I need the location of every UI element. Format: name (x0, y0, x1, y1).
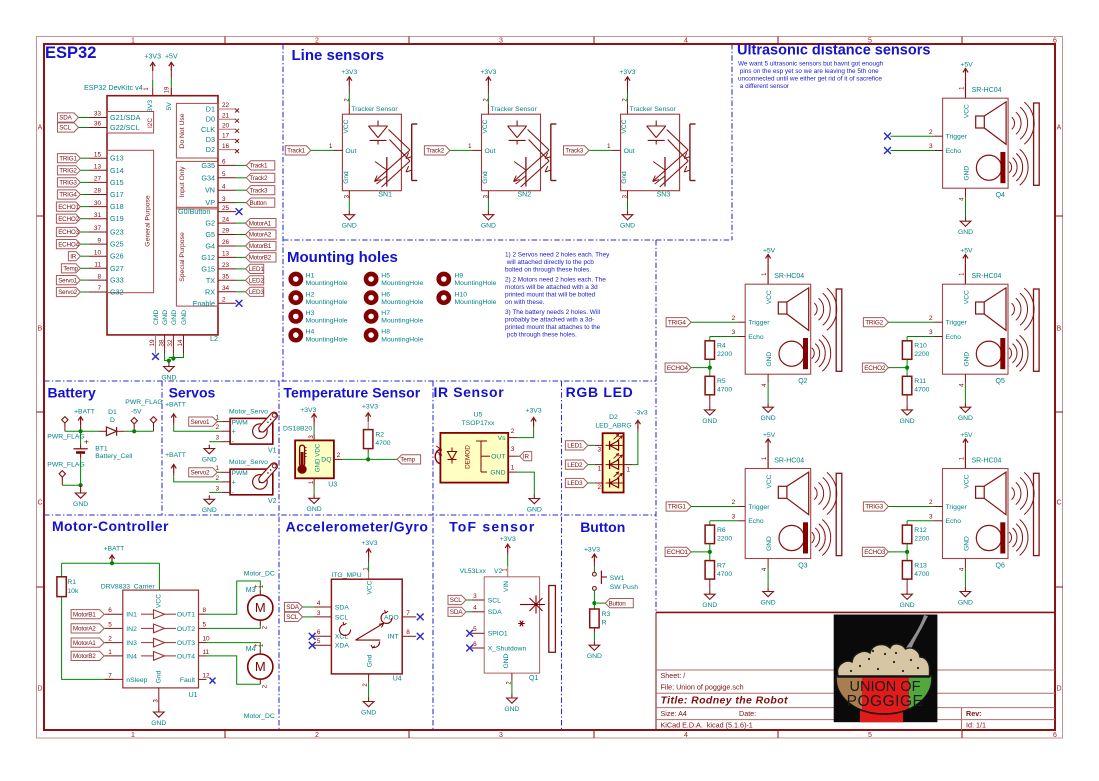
svg-text:GND: GND (963, 536, 970, 551)
svg-text:2: 2 (929, 499, 933, 506)
svg-text:G34: G34 (201, 173, 215, 182)
svg-text:4: 4 (317, 600, 321, 607)
svg-text:DS18B20: DS18B20 (283, 426, 312, 433)
svg-text:SCL: SCL (286, 614, 298, 621)
svg-text:13: 13 (94, 164, 102, 171)
svg-text:2: 2 (222, 297, 226, 304)
svg-text:GND: GND (587, 653, 602, 660)
svg-text:IN2: IN2 (126, 626, 137, 633)
svg-text:D1: D1 (206, 105, 215, 114)
svg-text:1: 1 (598, 466, 602, 473)
svg-text:Gnd: Gnd (482, 171, 489, 184)
svg-text:LED2: LED2 (249, 278, 265, 285)
svg-text:I2C: I2C (147, 118, 154, 128)
svg-text:G26: G26 (110, 252, 124, 261)
svg-text:11: 11 (203, 649, 210, 656)
svg-text:29: 29 (222, 228, 230, 235)
svg-text:B: B (38, 325, 43, 332)
svg-text:MountingHole: MountingHole (306, 299, 348, 306)
svg-text:+: + (232, 429, 236, 436)
svg-text:VCC: VCC (766, 290, 773, 304)
svg-text:7: 7 (97, 285, 101, 292)
svg-text:10: 10 (94, 249, 102, 256)
svg-text:D1: D1 (108, 409, 117, 416)
svg-text:H5: H5 (381, 273, 390, 280)
svg-text:TRIG1: TRIG1 (668, 504, 686, 511)
svg-text:5: 5 (203, 621, 207, 628)
svg-text:Trigger: Trigger (748, 320, 770, 327)
svg-text:ESP32 DevKitc v4: ESP32 DevKitc v4 (84, 83, 143, 92)
svg-text:Temp: Temp (63, 266, 78, 273)
svg-text:TRIG3: TRIG3 (59, 180, 77, 187)
svg-text:G22/SCL: G22/SCL (110, 123, 140, 132)
svg-text:Motor_Servo: Motor_Servo (229, 409, 268, 416)
svg-text:SCL: SCL (450, 597, 462, 604)
svg-text:1: 1 (468, 143, 472, 150)
svg-text:5V: 5V (166, 102, 173, 111)
svg-text:+3V3: +3V3 (584, 546, 600, 553)
svg-text:U4: U4 (393, 676, 402, 683)
svg-text:SN1: SN1 (378, 191, 392, 198)
svg-text:2200: 2200 (914, 536, 929, 543)
svg-text:TRIG4: TRIG4 (59, 192, 77, 199)
svg-text:ESP32: ESP32 (45, 44, 96, 62)
svg-text:3: 3 (222, 196, 226, 203)
svg-text:Track2: Track2 (250, 175, 269, 182)
svg-text:Echo: Echo (946, 518, 962, 525)
svg-text:3: 3 (216, 435, 220, 442)
svg-text:6: 6 (108, 607, 112, 614)
svg-text:2: 2 (216, 475, 220, 482)
svg-text:5: 5 (108, 621, 112, 628)
svg-text:21: 21 (222, 112, 230, 119)
svg-text:R10: R10 (914, 343, 927, 350)
svg-text:PWR_FLAG: PWR_FLAG (47, 433, 84, 440)
svg-text:6: 6 (1053, 732, 1057, 739)
svg-text:G5: G5 (205, 230, 215, 239)
svg-text:Button: Button (609, 600, 627, 607)
svg-text:D2: D2 (206, 145, 215, 154)
svg-text:1: 1 (131, 732, 135, 739)
svg-text:MountingHole: MountingHole (381, 318, 423, 325)
svg-text:+3V3: +3V3 (526, 407, 542, 414)
svg-text:Servo2: Servo2 (191, 470, 210, 477)
svg-text:BT1: BT1 (95, 446, 108, 453)
svg-text:V2: V2 (268, 498, 277, 505)
svg-text:31: 31 (94, 212, 102, 219)
svg-text:A: A (38, 124, 43, 131)
svg-text:3: 3 (473, 593, 477, 600)
svg-text:MountingHole: MountingHole (455, 280, 497, 287)
svg-text:Trigger: Trigger (946, 504, 968, 511)
svg-text:2: 2 (929, 129, 933, 136)
svg-text:Line sensors: Line sensors (292, 47, 385, 64)
svg-text:TRIG1: TRIG1 (59, 155, 77, 162)
svg-text:OUT3: OUT3 (177, 640, 195, 647)
svg-text:VIN: VIN (503, 581, 510, 592)
svg-text:U1: U1 (189, 692, 198, 699)
svg-text:MotorA2: MotorA2 (249, 232, 272, 239)
svg-text:VCC: VCC (963, 104, 970, 118)
svg-text:G0/Button: G0/Button (178, 207, 210, 216)
svg-text:2200: 2200 (717, 536, 732, 543)
svg-text:R5: R5 (717, 378, 726, 385)
svg-text:H8: H8 (381, 329, 390, 336)
svg-text:37: 37 (94, 225, 102, 232)
svg-text:8: 8 (406, 629, 410, 636)
svg-text:8: 8 (203, 607, 207, 614)
svg-text:G25: G25 (110, 240, 124, 249)
svg-text:Gnd: Gnd (343, 171, 350, 184)
svg-text:1: 1 (131, 38, 135, 45)
svg-text:Special Purpose: Special Purpose (179, 232, 186, 282)
svg-text:23: 23 (222, 262, 230, 269)
svg-text:D: D (110, 417, 115, 424)
svg-text:H9: H9 (455, 273, 464, 280)
svg-text:R2: R2 (375, 432, 384, 439)
svg-text:VCC: VCC (963, 290, 970, 304)
svg-text:MotorA2: MotorA2 (73, 626, 96, 633)
svg-text:28: 28 (94, 188, 102, 195)
svg-text:GND: GND (702, 602, 717, 609)
svg-text:1: 1 (108, 649, 112, 656)
svg-text:Title: Rodney the Robot: Title: Rodney the Robot (661, 695, 789, 707)
svg-text:2200: 2200 (717, 351, 732, 358)
svg-text:1: 1 (607, 143, 611, 150)
svg-text:Tracker Sensor: Tracker Sensor (351, 106, 398, 113)
svg-text:PWR_FLAG: PWR_FLAG (47, 461, 84, 468)
svg-text:Ultrasonic distance sensors: Ultrasonic distance sensors (737, 43, 930, 59)
svg-text:H6: H6 (381, 291, 390, 298)
svg-text:25: 25 (222, 205, 230, 212)
svg-text:Servos: Servos (169, 384, 216, 400)
svg-text:H7: H7 (381, 310, 390, 317)
svg-text:5: 5 (317, 638, 321, 645)
svg-text:Trigger: Trigger (748, 504, 770, 511)
svg-text:6: 6 (1053, 38, 1057, 45)
svg-text:2: 2 (108, 636, 112, 643)
svg-text:3V3: 3V3 (147, 100, 154, 112)
svg-text:3: 3 (511, 446, 515, 453)
svg-text:ECHO3: ECHO3 (58, 229, 79, 236)
svg-text:G35: G35 (201, 161, 215, 170)
svg-text:GND: GND (504, 706, 519, 713)
svg-text:Echo: Echo (748, 518, 764, 525)
svg-text:GND: GND (766, 536, 773, 551)
svg-text:C: C (37, 499, 42, 506)
svg-text:ECHO2: ECHO2 (864, 365, 886, 372)
svg-text:ECHO4: ECHO4 (58, 241, 79, 248)
svg-text:G2: G2 (205, 219, 215, 228)
svg-text:+3V3: +3V3 (619, 69, 635, 76)
svg-text:VP: VP (205, 198, 215, 207)
svg-text:U3: U3 (328, 481, 337, 488)
svg-text:SR-HC04: SR-HC04 (972, 273, 1002, 280)
svg-text:GND: GND (620, 223, 635, 230)
svg-text:IR: IR (523, 453, 530, 460)
svg-text:SR-HC04: SR-HC04 (972, 87, 1002, 94)
svg-text:R1: R1 (67, 579, 76, 586)
svg-text:nSleep: nSleep (126, 677, 147, 684)
svg-text:B: B (1057, 325, 1062, 332)
svg-text:2: 2 (315, 38, 319, 45)
svg-text:G27: G27 (110, 264, 124, 273)
svg-text:8: 8 (97, 273, 101, 280)
svg-text:GND: GND (342, 223, 357, 230)
svg-text:3: 3 (929, 329, 933, 336)
svg-text:+5V: +5V (960, 432, 973, 439)
svg-text:12: 12 (203, 672, 211, 679)
svg-text:Trigger: Trigger (946, 134, 968, 141)
svg-text:9: 9 (97, 237, 101, 244)
svg-text:D2: D2 (609, 414, 618, 421)
svg-text:4700: 4700 (914, 387, 929, 394)
svg-text:Vs: Vs (498, 435, 507, 442)
svg-text:H1: H1 (306, 273, 315, 280)
svg-text:A: A (1057, 124, 1062, 131)
svg-text:+BATT: +BATT (165, 401, 186, 408)
svg-text:SN3: SN3 (657, 191, 671, 198)
svg-text:H10: H10 (455, 291, 468, 298)
svg-text:5: 5 (222, 171, 226, 178)
svg-text:a different sensor: a different sensor (738, 83, 790, 90)
svg-text:SR-HC04: SR-HC04 (972, 457, 1002, 464)
svg-text:H2: H2 (306, 291, 315, 298)
svg-text:4: 4 (222, 183, 226, 190)
svg-text:LED1: LED1 (567, 443, 583, 450)
svg-text:3: 3 (317, 610, 321, 617)
svg-text:VCC: VCC (482, 119, 489, 133)
svg-text:DEMOD: DEMOD (465, 445, 472, 469)
svg-text:MotorA1: MotorA1 (249, 220, 272, 227)
svg-text:Track1: Track1 (287, 148, 306, 155)
svg-text:G18: G18 (110, 202, 124, 211)
svg-text:V2: V2 (494, 568, 503, 575)
svg-text:R6: R6 (717, 527, 726, 534)
svg-text:17: 17 (222, 133, 230, 140)
svg-text:D0: D0 (206, 115, 215, 124)
svg-text:33: 33 (94, 111, 102, 118)
svg-text:3: 3 (732, 329, 736, 336)
svg-text:OUT1: OUT1 (177, 612, 195, 619)
svg-text:V1: V1 (268, 448, 277, 455)
svg-text:+: + (232, 479, 236, 486)
svg-text:VCC: VCC (963, 474, 970, 488)
svg-text:5: 5 (868, 732, 872, 739)
svg-text:ToF sensor: ToF sensor (449, 518, 535, 534)
svg-text:CLK: CLK (201, 125, 215, 134)
svg-text:Fault: Fault (180, 677, 195, 684)
svg-text:GND: GND (702, 418, 717, 425)
svg-text:Servo1: Servo1 (58, 277, 77, 284)
svg-text:R4: R4 (717, 343, 726, 350)
svg-text:POGGIGE: POGGIGE (847, 693, 924, 710)
svg-text:Q4: Q4 (996, 192, 1005, 199)
svg-text:SPIO1: SPIO1 (488, 631, 508, 638)
svg-text:ITG_MPU: ITG_MPU (331, 572, 361, 579)
svg-text:Track1: Track1 (250, 163, 269, 170)
svg-text:probably be attached with a 3d: probably be attached with a 3d- (505, 317, 594, 324)
svg-text:Enable: Enable (193, 299, 215, 308)
svg-text:G12: G12 (201, 253, 215, 262)
svg-text:IR Sensor: IR Sensor (434, 384, 505, 400)
svg-text:GND: GND (307, 506, 322, 513)
svg-text:Track3: Track3 (565, 148, 584, 155)
svg-text:GND: GND (963, 352, 970, 367)
svg-text:IR: IR (70, 253, 77, 260)
svg-text:3: 3 (732, 514, 736, 521)
svg-text:4: 4 (684, 38, 688, 45)
svg-text:printed mount that attaches to: printed mount that attaches to the (505, 324, 601, 331)
svg-text:GND: GND (900, 418, 915, 425)
svg-text:unconnected until we either ge: unconnected until we either get rid of i… (738, 76, 882, 83)
svg-text:Echo: Echo (946, 148, 962, 155)
svg-text:PWM: PWM (232, 470, 248, 477)
svg-text:SR-HC04: SR-HC04 (774, 273, 804, 280)
svg-text:OUT4: OUT4 (177, 653, 195, 660)
svg-text:G4: G4 (205, 242, 215, 251)
svg-text:2) 2 Motors need 2 holes each.: 2) 2 Motors need 2 holes each. The (505, 277, 606, 284)
svg-text:SDA: SDA (59, 115, 72, 122)
svg-text:22: 22 (222, 102, 230, 109)
svg-text:13: 13 (222, 251, 230, 258)
svg-text:MountingHole: MountingHole (381, 299, 423, 306)
svg-text:2: 2 (732, 499, 736, 506)
svg-text:6: 6 (222, 159, 226, 166)
svg-text:LED2: LED2 (567, 462, 583, 469)
svg-text:6: 6 (317, 629, 321, 636)
svg-text:GND: GND (481, 223, 496, 230)
svg-text:VCC: VCC (766, 474, 773, 488)
svg-text:-3v3: -3v3 (634, 409, 647, 416)
svg-text:Motor-Controller: Motor-Controller (52, 518, 169, 534)
svg-text:1: 1 (329, 143, 333, 150)
svg-text:Accelerometer/Gyro: Accelerometer/Gyro (286, 518, 429, 534)
svg-text:3: 3 (598, 446, 602, 453)
svg-text:Date:: Date: (739, 709, 756, 718)
svg-text:IN4: IN4 (126, 653, 137, 660)
svg-text:4: 4 (473, 605, 477, 612)
svg-text:4: 4 (684, 732, 688, 739)
svg-text:Servo1: Servo1 (191, 419, 210, 426)
svg-text:G14: G14 (110, 166, 124, 175)
svg-text:GND: GND (202, 507, 217, 514)
svg-text:SCL: SCL (335, 614, 348, 621)
svg-text:Sheet: /: Sheet: / (661, 671, 686, 680)
svg-text:GND: GND (761, 599, 776, 606)
svg-text:+5V: +5V (165, 54, 178, 61)
svg-text:M: M (255, 600, 266, 615)
svg-text:H3: H3 (306, 310, 315, 317)
svg-text:+5V: +5V (960, 62, 973, 69)
svg-text:30: 30 (94, 200, 102, 207)
svg-text:G13: G13 (110, 154, 124, 163)
svg-text:Out: Out (345, 148, 356, 155)
svg-text:Servo2: Servo2 (58, 289, 77, 296)
svg-text:+3V3: +3V3 (341, 69, 357, 76)
svg-text:2: 2 (315, 732, 319, 739)
svg-text:M4: M4 (246, 646, 256, 653)
svg-text:VCC: VCC (343, 119, 350, 133)
svg-text:Size: A4: Size: A4 (661, 709, 687, 718)
svg-text:4700: 4700 (914, 571, 929, 578)
svg-text:INT: INT (388, 634, 399, 641)
svg-text:MotorB2: MotorB2 (249, 255, 272, 262)
svg-text:GND: GND (958, 599, 973, 606)
svg-text:Button: Button (580, 519, 625, 535)
svg-text:Tracker Sensor: Tracker Sensor (491, 106, 538, 113)
svg-text:19: 19 (165, 86, 171, 93)
svg-text:MotorB2: MotorB2 (73, 653, 96, 660)
svg-text:Gnd: Gnd (156, 670, 163, 683)
svg-text:GND: GND (202, 457, 217, 464)
svg-text:Motor_DC: Motor_DC (244, 571, 275, 578)
svg-text:MotorB1: MotorB1 (73, 611, 96, 618)
svg-text:Track2: Track2 (426, 148, 445, 155)
svg-text:MountingHole: MountingHole (306, 336, 348, 343)
svg-text:Rev:: Rev: (966, 709, 982, 718)
svg-text:27: 27 (94, 176, 102, 183)
svg-text:TRIG2: TRIG2 (59, 168, 77, 175)
svg-text:VCC: VCC (366, 580, 373, 594)
svg-text:5: 5 (473, 626, 477, 633)
svg-text:MotorB1: MotorB1 (249, 243, 272, 250)
svg-text:VCC: VCC (621, 119, 628, 133)
svg-text:+3V3: +3V3 (361, 540, 377, 547)
svg-text:RX: RX (205, 287, 215, 296)
svg-text:KiCad E.D.A. kicad (5.1.6)-1: KiCad E.D.A. kicad (5.1.6)-1 (661, 721, 753, 730)
svg-text:+3V3: +3V3 (144, 54, 161, 61)
svg-text:2: 2 (598, 484, 602, 491)
svg-text:U5: U5 (474, 412, 483, 419)
svg-text:15: 15 (94, 151, 102, 158)
svg-text:+3V3: +3V3 (362, 403, 378, 410)
svg-text:36: 36 (94, 121, 102, 128)
svg-text:C: C (1056, 499, 1061, 506)
svg-text:34: 34 (222, 285, 230, 292)
svg-text:2: 2 (337, 452, 341, 459)
svg-text:VCC: VCC (156, 594, 163, 608)
svg-text:G21/SDA: G21/SDA (110, 113, 141, 122)
svg-text:6: 6 (473, 641, 477, 648)
svg-text:R7: R7 (717, 563, 726, 570)
svg-text:PWR_FLAG: PWR_FLAG (125, 399, 162, 406)
svg-text:MountingHole: MountingHole (455, 299, 497, 306)
svg-text:GND: GND (503, 653, 510, 668)
svg-text:MountingHole: MountingHole (306, 280, 348, 287)
svg-text:MotorA1: MotorA1 (73, 640, 96, 647)
svg-text:R12: R12 (914, 527, 927, 534)
svg-text:2: 2 (732, 315, 736, 322)
svg-text:RGB LED: RGB LED (566, 384, 634, 400)
svg-text:MountingHole: MountingHole (381, 280, 423, 287)
svg-text:pcb through these holes.: pcb through these holes. (505, 332, 577, 339)
svg-text:GND: GND (161, 374, 176, 381)
svg-text:+BATT: +BATT (104, 545, 125, 552)
svg-text:3: 3 (499, 732, 503, 739)
svg-text:TSOP17xx: TSOP17xx (462, 420, 495, 427)
svg-text:ECHO1: ECHO1 (667, 549, 689, 556)
svg-text:7: 7 (406, 610, 410, 617)
svg-text:TRIG4: TRIG4 (668, 319, 686, 326)
svg-text:Trigger: Trigger (946, 320, 968, 327)
svg-text:11: 11 (94, 262, 101, 269)
svg-text:+BATT: +BATT (165, 452, 186, 459)
svg-text:TX: TX (206, 276, 215, 285)
svg-text:24: 24 (222, 216, 230, 223)
svg-text:LED3: LED3 (567, 480, 583, 487)
svg-text:LED_ABRG: LED_ABRG (595, 422, 631, 429)
